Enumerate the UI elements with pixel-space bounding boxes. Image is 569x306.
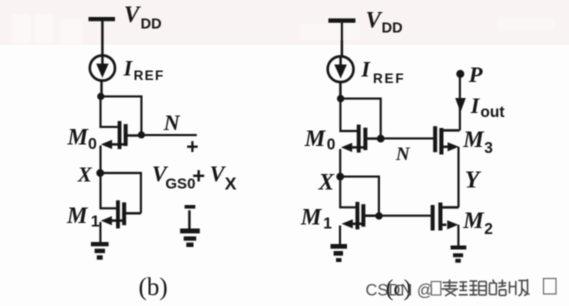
label M3 [462,127,493,157]
svg-text:+: + [186,136,198,159]
svg-text:Y: Y [465,168,482,194]
wire node to M0 gate [101,96,118,127]
svg-text:GS0: GS0 [165,176,195,193]
ground reference (right of circuit b) [180,229,200,248]
svg-text:M: M [304,126,327,151]
svg-text:REF: REF [373,71,405,86]
wire diode loop to M0 drain [341,99,381,139]
label VDD [366,7,403,36]
watermark CJK glyph strokes [442,279,530,296]
node P dot [456,70,464,78]
label IREF [123,55,165,83]
svg-text:CSDN @: CSDN @ [366,281,434,299]
svg-text:3: 3 [484,140,493,157]
junction dot M1 drain [375,212,382,219]
transistor M2 [431,203,459,231]
label VDD [124,2,162,32]
svg-text:X: X [318,170,335,195]
ghost watermark 我的 (faint) [11,14,555,44]
svg-text:1: 1 [91,213,100,230]
svg-text:+: + [192,164,205,189]
arrow Iout [455,98,466,112]
svg-text:N: N [395,144,411,165]
wire stub above reference ground [188,210,190,229]
svg-text:I: I [360,57,371,82]
wire node N to M3 gate [381,137,434,139]
transistor M0 [341,125,381,153]
transistor M1 [342,202,379,230]
svg-text:M: M [462,127,485,152]
svg-text:0: 0 [88,136,97,153]
label minus [185,205,196,209]
wire diode loop to M0 drain [101,96,142,134]
ground below M1 [331,244,348,262]
VDD supply bar [328,18,355,22]
svg-text:P: P [468,62,483,87]
label M1 [300,205,332,233]
svg-text:N: N [163,110,181,135]
svg-text:X: X [225,174,237,194]
label Iout [470,93,505,121]
label M1 [66,203,100,231]
svg-text:M: M [66,203,89,228]
wire VDD to current source [341,23,343,57]
label IREF [360,57,405,86]
node X dot [336,173,344,181]
label M2 [462,208,493,238]
wire VDD to current source [101,21,103,55]
junction dot M0 drain / node N [377,135,385,143]
transistor M3 [433,126,459,154]
wire M1 source to ground [339,226,341,245]
label VGS0+VX [152,161,237,193]
wire X diode loop to M1 drain [340,177,379,216]
svg-text:X: X [77,162,93,186]
wire M0 source to X [99,146,101,174]
svg-text:M: M [462,208,485,233]
node X dot [96,169,104,177]
svg-text:M: M [67,124,90,149]
wire M1 source to ground [99,222,101,242]
junction dot below IREF [337,95,344,102]
svg-text:DD: DD [382,20,403,36]
junction dot below IREF [97,93,104,100]
svg-text:DD: DD [141,17,162,33]
svg-text:out: out [480,104,504,121]
transistor M0 [101,121,141,149]
wire X diode loop to M1 drain [100,173,141,213]
wire M1 drain to M2 gate [365,215,431,217]
svg-text:M: M [300,205,323,230]
svg-text:2: 2 [484,221,493,238]
label M0 [304,126,336,154]
svg-text:0: 0 [327,137,336,154]
wire M2 source to ground [457,225,459,246]
wire X to M1 gate [101,173,117,208]
svg-text:V: V [124,2,141,27]
wire node N [141,134,196,136]
VDD supply bar [89,17,116,21]
wire current source to node [339,82,341,99]
wire M3 source down to Y / M2 drain [457,147,459,208]
current source IREF [328,56,354,82]
current source IREF [90,55,115,80]
wire current source to node [100,81,102,97]
watermark CSDN [366,279,557,300]
wire M0 source to X [339,149,341,177]
svg-text:V: V [366,7,383,32]
wire node to M0 gate [340,99,357,131]
junction dot M0 drain / node N [138,131,145,138]
label M0 [67,124,98,153]
svg-text:I: I [123,55,134,80]
svg-text:(b): (b) [139,274,168,301]
ground below M2 [451,246,467,263]
svg-text:REF: REF [134,68,165,83]
svg-text:1: 1 [323,215,332,232]
svg-text:I: I [470,93,481,118]
transistor M1 [101,200,141,228]
ground below M1 [91,242,109,260]
wire M3 drain up to P [459,77,461,130]
wire X to M1 gate [340,177,356,208]
